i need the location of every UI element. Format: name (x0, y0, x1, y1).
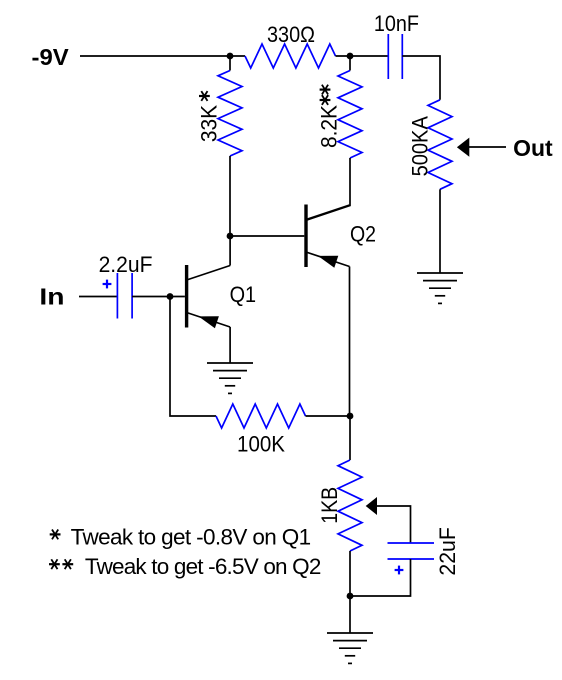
svg-text:500KA: 500KA (407, 116, 433, 177)
wiper arrow of 1KB (366, 497, 377, 515)
svg-text:33K: 33K (196, 104, 222, 142)
transistor Q1 (187, 265, 231, 328)
resistor R 8.2K (338, 71, 362, 159)
svg-text:8.2K: 8.2K (316, 104, 342, 148)
wire 100K to junction (306, 415, 351, 417)
svg-text:22uF: 22uF (434, 527, 460, 575)
polarity + of 2.2uF (103, 280, 112, 289)
polarity + of 22uF (395, 566, 404, 575)
resistor R 330ohm (245, 44, 336, 68)
wiper arrow of 500KA (457, 138, 469, 157)
svg-text:Tweak to get -6.5V on Q2: Tweak to get -6.5V on Q2 (85, 554, 322, 579)
svg-text:1KB: 1KB (316, 487, 342, 524)
potentiometer 1KB (338, 460, 362, 551)
wire 33K top lead (229, 56, 231, 71)
svg-text:100K: 100K (237, 431, 285, 457)
resistor R 33K (218, 71, 242, 157)
wire In to 2.2uF (79, 296, 117, 298)
junction dot 33K / Q1 collector / Q2 base (227, 233, 234, 240)
wire feedback from Q1 base node (170, 297, 216, 417)
svg-text:2.2uF: 2.2uF (99, 251, 153, 277)
capacitor C 2.2uF (117, 273, 132, 319)
wire Q2 base (230, 235, 304, 237)
ground under Q1 (207, 363, 253, 393)
wire 8.2K bottom to Q2 collector (307, 158, 350, 220)
svg-text:Q2: Q2 (350, 221, 376, 247)
potentiometer 500KA (428, 100, 452, 190)
resistor R 100K (216, 404, 306, 428)
note tweak Q2 (49, 559, 60, 569)
svg-text:Tweak to get -0.8V on Q1: Tweak to get -0.8V on Q1 (71, 524, 312, 549)
svg-text:Q1: Q1 (230, 281, 257, 307)
ground at bottom (327, 633, 373, 663)
wire 500KA bottom to ground (439, 189, 441, 273)
junction dot 1KB bottom / 22uF (347, 593, 354, 600)
wire 1KB wiper to 22uF (376, 506, 411, 543)
wire Q2 emitter down to 100K node (349, 267, 351, 417)
junction dot 100K / Q2 emitter / 1KB (347, 413, 354, 420)
wire Q1 emitter to ground (229, 327, 231, 363)
svg-text:10nF: 10nF (374, 10, 419, 36)
wire 22uF bottom to ground node (350, 559, 411, 596)
wire 1KB bottom to ground node (349, 551, 351, 596)
wire Out wiper (469, 146, 506, 148)
wire 2.2uF to Q1 base (132, 296, 185, 298)
wire 33K bottom to Q1 collector node (229, 156, 231, 236)
wire 330 ohm to 10nF (336, 55, 389, 57)
wire ground stub (349, 596, 351, 633)
note tweak Q1 (50, 530, 61, 540)
ground under 500KA (417, 273, 463, 303)
svg-text:Out: Out (513, 135, 553, 161)
wire junction to 1KB (349, 416, 351, 460)
svg-text:In: In (39, 284, 64, 310)
wire 10nF to 500KA top (402, 56, 440, 100)
junction dot top rail / 33K (227, 53, 234, 60)
wire 8.2K top lead (349, 56, 351, 71)
transistor Q2 (306, 205, 350, 268)
wire Q1 collector up (229, 236, 231, 266)
capacitor C 22uF (388, 543, 435, 559)
wire -9V rail to 330 ohm (80, 55, 245, 57)
svg-text:-9V: -9V (32, 44, 69, 70)
junction dot Q1 base / feedback (167, 293, 174, 300)
capacitor C 10nF (388, 34, 402, 79)
junction dot 330ohm / 8.2K / 10nF (347, 53, 354, 60)
svg-text:330Ω: 330Ω (267, 21, 315, 47)
